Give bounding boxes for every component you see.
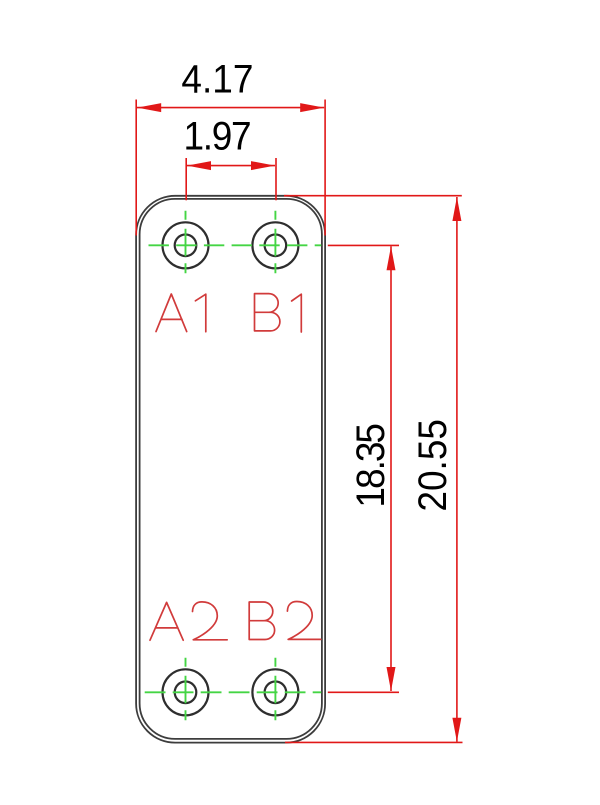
label A2	[150, 602, 227, 640]
center line horizontal top ports	[149, 244, 322, 246]
dimension 18.35 extension line top	[328, 244, 399, 246]
dimension 4.17 line	[137, 107, 324, 109]
center mark port B1 vertical	[274, 211, 276, 273]
center line horizontal bottom ports	[145, 691, 322, 693]
label B2	[249, 602, 321, 640]
port B1 outer circle	[252, 222, 298, 268]
dimension 18.35 line	[390, 246, 392, 691]
port B2 inner circle	[265, 682, 287, 704]
dimension 20.55 bottom arrowhead	[452, 718, 461, 742]
center mark port B2 vertical	[274, 658, 276, 721]
port A1 inner circle	[175, 235, 197, 257]
svg-text:1.97: 1.97	[184, 114, 251, 158]
dimension 4.17 extension line right	[324, 100, 326, 236]
port B2 outer circle	[252, 669, 298, 715]
dimension 18.35 bottom arrowhead	[387, 667, 396, 691]
dimension 4.17 extension line left	[135, 100, 137, 236]
dimension 20.55 line	[456, 197, 458, 742]
label B1	[255, 294, 302, 332]
svg-text:4.17: 4.17	[181, 57, 253, 101]
dimension 1.97 extension line left	[185, 158, 187, 200]
dimension 1.97 line	[187, 165, 275, 167]
label A1	[156, 294, 206, 332]
dimension 1.97 right arrowhead	[251, 161, 275, 170]
dimension 20.55 extension line top	[284, 195, 462, 197]
dimension 4.17 right arrowhead	[300, 103, 324, 112]
center mark port A2 vertical	[185, 658, 187, 721]
port A2 inner circle	[175, 682, 197, 704]
svg-text:20.55: 20.55	[411, 419, 455, 512]
center mark port A1 vertical	[185, 211, 187, 273]
dimension 1.97 left arrowhead	[187, 161, 211, 170]
dimension 18.35 extension line bottom	[328, 691, 399, 693]
dimension 18.35 top arrowhead	[387, 246, 396, 270]
port A2 outer circle	[163, 669, 209, 715]
dimension 1.97 extension line right	[275, 158, 277, 200]
dimension 20.55 top arrowhead	[452, 197, 461, 221]
svg-text:18.35: 18.35	[349, 424, 393, 507]
plate outer outline	[136, 196, 325, 743]
dimension 4.17 left arrowhead	[137, 103, 161, 112]
dimension 20.55 extension line bottom	[285, 741, 463, 743]
port B1 inner circle	[265, 235, 287, 257]
port A1 outer circle	[163, 222, 209, 268]
plate inner outline	[140, 199, 322, 739]
